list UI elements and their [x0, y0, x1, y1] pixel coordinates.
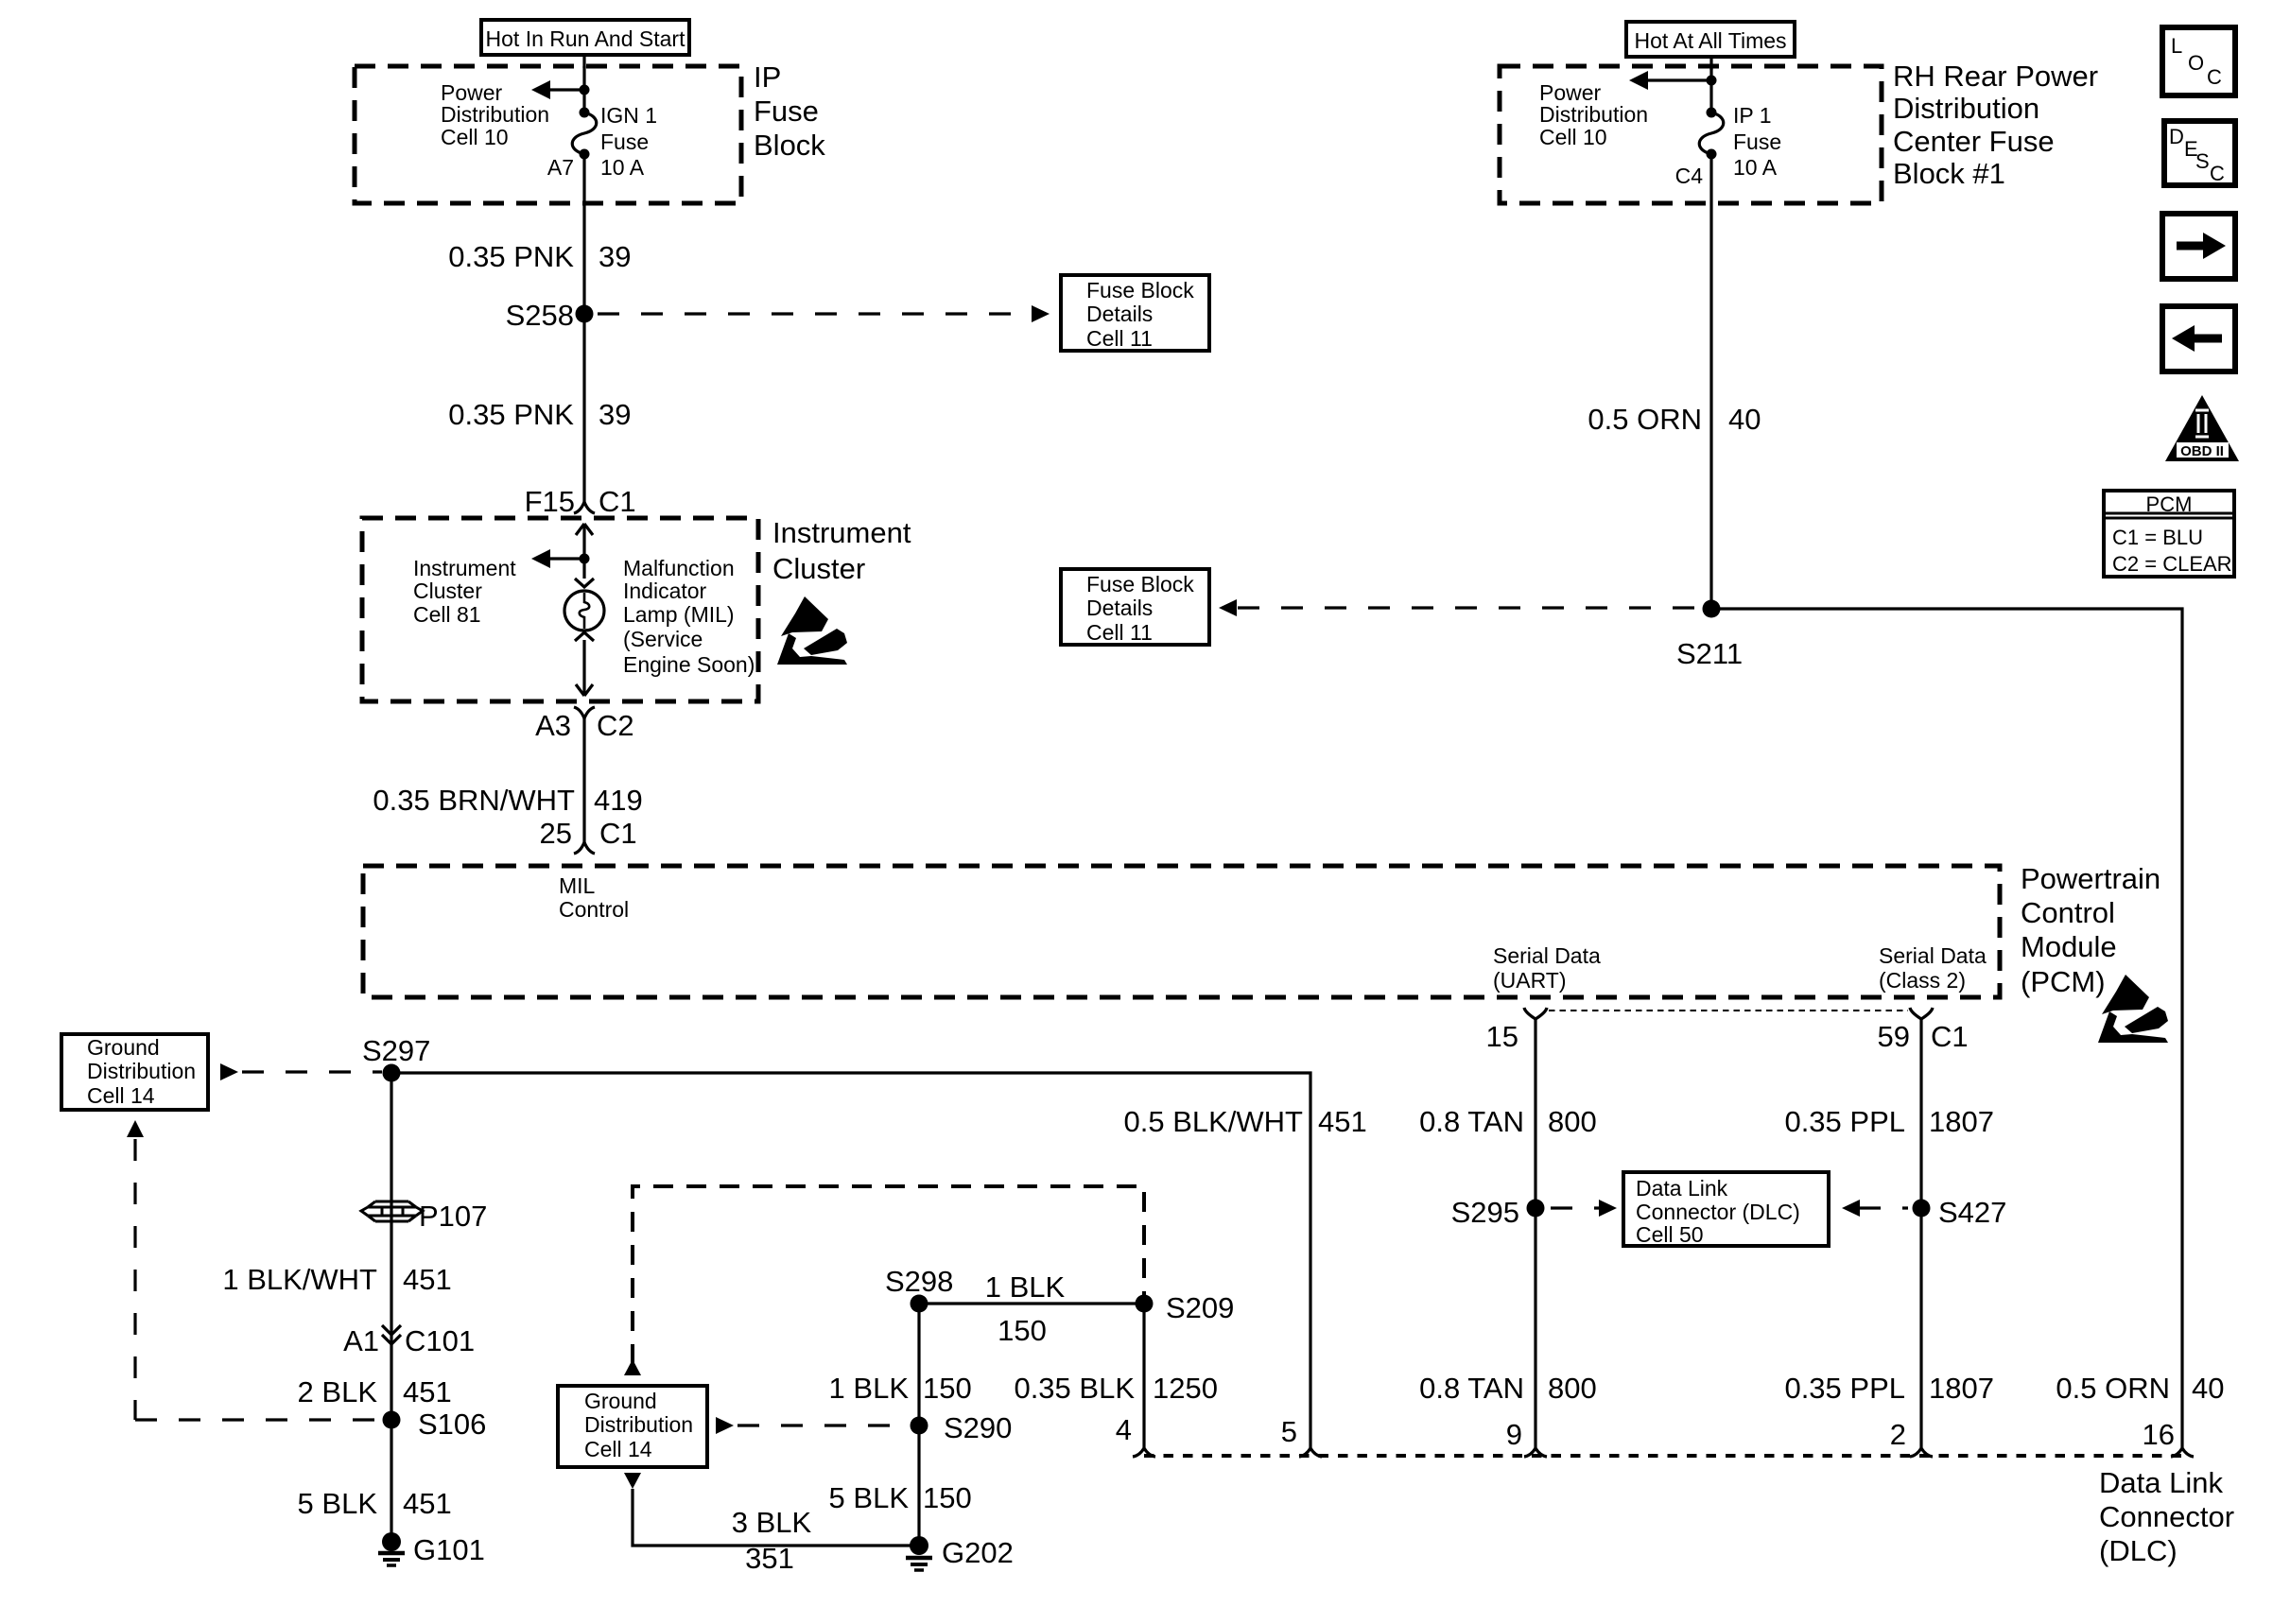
legend box back arrow — [2162, 306, 2235, 371]
svg-text:Distribution: Distribution — [584, 1412, 693, 1437]
svg-text:(PCM): (PCM) — [2021, 965, 2106, 998]
svg-text:A3: A3 — [535, 709, 571, 742]
svg-text:O: O — [2188, 51, 2204, 75]
svg-text:Cell 14: Cell 14 — [87, 1083, 155, 1108]
svg-text:Module: Module — [2021, 930, 2117, 963]
wire label 2 BLK 451 — [298, 1375, 452, 1408]
splice S211 — [1676, 600, 1743, 671]
PCM connector C1 outline (thin dashed) — [1549, 1010, 1908, 1011]
svg-text:S106: S106 — [418, 1408, 486, 1441]
wire label 0.35 PNK 39 (upper) — [448, 240, 631, 273]
wire label 1 BLK 150 (horizontal) — [985, 1270, 1066, 1347]
label Serial Data (Class 2) — [1879, 943, 1987, 993]
reference box Fuse Block Details Cell 11 (upper) — [1061, 275, 1209, 351]
svg-text:(Service: (Service — [623, 627, 703, 651]
svg-text:Cell 11: Cell 11 — [1086, 326, 1153, 351]
svg-text:Ground: Ground — [87, 1035, 160, 1060]
PCM pin 59 C1 (connector half) — [1878, 1008, 1969, 1053]
svg-text:C101: C101 — [405, 1324, 475, 1357]
reference box Fuse Block Details Cell 11 (lower) — [1061, 569, 1209, 645]
svg-text:1807: 1807 — [1929, 1105, 1994, 1138]
dashed arrow Ground Distribution to S290 — [716, 1417, 906, 1434]
section label IP Fuse Block — [754, 60, 825, 162]
svg-text:Details: Details — [1086, 302, 1153, 326]
svg-text:419: 419 — [594, 784, 643, 817]
svg-text:0.35 PPL: 0.35 PPL — [1784, 1372, 1905, 1405]
svg-text:Details: Details — [1086, 596, 1153, 620]
svg-text:25: 25 — [540, 817, 572, 850]
svg-text:(DLC): (DLC) — [2099, 1534, 2178, 1567]
section label Powertrain Control Module (PCM) — [2021, 862, 2160, 998]
svg-text:10 A: 10 A — [600, 155, 645, 180]
svg-text:S258: S258 — [506, 299, 574, 332]
wire label 5 BLK 451 — [298, 1487, 452, 1520]
svg-text:2: 2 — [1890, 1418, 1906, 1451]
wire feed inside IP fuse block — [582, 66, 585, 113]
wire from Hot At All Times to fuse block — [1709, 57, 1712, 70]
legend box DESC — [2164, 121, 2235, 185]
arrow to Instrument Cluster cell — [531, 549, 590, 568]
svg-text:Cell 11: Cell 11 — [1086, 620, 1153, 645]
svg-text:351: 351 — [745, 1542, 794, 1575]
svg-text:1807: 1807 — [1929, 1372, 1994, 1405]
splice S290 — [911, 1411, 1013, 1444]
connector A1 C101 — [343, 1324, 475, 1357]
svg-text:5: 5 — [1281, 1415, 1297, 1448]
wire label 0.35 BLK 1250 — [1014, 1372, 1218, 1405]
svg-text:A7: A7 — [547, 155, 574, 180]
dashed reference path to S106 with up arrow — [127, 1120, 378, 1420]
svg-text:Cell 50: Cell 50 — [1636, 1222, 1704, 1247]
wire label 3 BLK 351 — [732, 1506, 812, 1575]
svg-text:0.5 ORN: 0.5 ORN — [2056, 1372, 2170, 1405]
svg-text:1250: 1250 — [1153, 1372, 1218, 1405]
svg-text:Distribution: Distribution — [1893, 92, 2039, 125]
svg-text:RH Rear Power: RH Rear Power — [1893, 60, 2098, 93]
svg-text:3 BLK: 3 BLK — [732, 1506, 812, 1539]
svg-text:451: 451 — [403, 1487, 452, 1520]
svg-text:0.5 ORN: 0.5 ORN — [1588, 403, 1702, 436]
svg-text:0.8 TAN: 0.8 TAN — [1419, 1105, 1524, 1138]
label Serial Data (UART) — [1493, 943, 1601, 993]
svg-text:A1: A1 — [343, 1324, 379, 1357]
wire label 0.35 PPL 1807 (lower) — [1784, 1372, 1994, 1405]
PCM pin 15 (connector half) — [1486, 1008, 1547, 1053]
svg-text:Data Link: Data Link — [1636, 1176, 1728, 1201]
Instrument Cluster (dashed outline) — [362, 518, 758, 701]
ground G101 — [378, 1532, 485, 1566]
svg-text:Control: Control — [2021, 896, 2115, 929]
svg-text:MIL: MIL — [559, 873, 596, 898]
svg-text:0.8 TAN: 0.8 TAN — [1419, 1372, 1524, 1405]
wire label 0.35 BRN/WHT 419 — [373, 784, 642, 817]
reference box Ground Distribution Cell 14 (left) — [61, 1034, 208, 1110]
svg-text:P107: P107 — [419, 1200, 487, 1233]
label Instrument Cluster Cell 81 — [413, 556, 516, 627]
down arrow from Ground Distribution — [624, 1473, 641, 1489]
svg-text:S211: S211 — [1676, 637, 1743, 670]
svg-text:0.35 PPL: 0.35 PPL — [1784, 1105, 1905, 1138]
svg-text:S290: S290 — [944, 1411, 1012, 1444]
svg-text:OBD II: OBD II — [2180, 443, 2224, 459]
svg-text:1 BLK/WHT: 1 BLK/WHT — [222, 1263, 377, 1296]
DLC pin 5 — [1281, 1415, 1322, 1457]
svg-text:Instrument: Instrument — [413, 556, 516, 580]
reference box Ground Distribution Cell 14 (center) — [558, 1386, 707, 1467]
svg-text:Data Link: Data Link — [2099, 1466, 2223, 1499]
svg-text:5 BLK: 5 BLK — [829, 1481, 910, 1514]
wire PCM pin 15 to DLC pin 9 — [1534, 1019, 1536, 1448]
wire label 0.8 TAN 800 (upper) — [1419, 1105, 1597, 1138]
wire into instrument cluster with up arrow — [576, 524, 593, 579]
power label box Hot At All Times — [1626, 22, 1795, 57]
wire S297 to DLC pin 5 — [391, 1073, 1310, 1448]
svg-text:Cell 81: Cell 81 — [413, 602, 481, 627]
svg-text:Hot In Run And Start: Hot In Run And Start — [486, 26, 686, 51]
svg-text:16: 16 — [2143, 1418, 2175, 1451]
wire label 5 BLK 150 — [829, 1481, 972, 1514]
svg-text:C2 = CLEAR: C2 = CLEAR — [2112, 552, 2232, 576]
arrow to Power Distribution — [531, 80, 590, 99]
splice S106 — [383, 1408, 487, 1441]
ESD symbol (PCM) — [2098, 975, 2168, 1043]
connector 25 C1 (PCM input) — [540, 817, 637, 854]
svg-text:IGN 1: IGN 1 — [600, 103, 657, 128]
svg-text:C1: C1 — [599, 485, 636, 518]
svg-text:Control: Control — [559, 897, 629, 922]
wire from Hot In Run And Start to IP fuse block — [582, 55, 585, 68]
wire label 0.35 PPL 1807 (upper) — [1784, 1105, 1994, 1138]
svg-text:59: 59 — [1878, 1020, 1910, 1053]
svg-text:40: 40 — [2192, 1372, 2224, 1405]
svg-text:Fuse: Fuse — [1733, 130, 1781, 154]
svg-text:451: 451 — [1318, 1105, 1367, 1138]
wire PCM pin 59 to DLC pin 2 — [1919, 1019, 1922, 1448]
wire fuse to S258 to F15 — [582, 154, 585, 503]
svg-text:0.5 BLK/WHT: 0.5 BLK/WHT — [1124, 1105, 1304, 1138]
wire S211 to DLC pin 16 — [1711, 609, 2182, 1448]
svg-text:451: 451 — [403, 1375, 452, 1408]
DLC connector outline (dashed) — [1144, 1454, 2182, 1458]
svg-text:C1: C1 — [599, 817, 637, 850]
svg-text:Cell 10: Cell 10 — [1539, 125, 1607, 149]
svg-text:Connector (DLC): Connector (DLC) — [1636, 1200, 1800, 1224]
dashed arrow Ground Distribution to S297 — [220, 1063, 382, 1080]
dashed harness outline (ground net) — [633, 1186, 1144, 1364]
svg-text:Serial Data: Serial Data — [1879, 943, 1987, 968]
svg-text:0.35 BRN/WHT: 0.35 BRN/WHT — [373, 784, 575, 817]
label Power Distribution Cell 10 (IP) — [441, 80, 549, 149]
svg-text:Block #1: Block #1 — [1893, 157, 2005, 190]
svg-text:10 A: 10 A — [1733, 155, 1778, 180]
svg-text:Serial Data: Serial Data — [1493, 943, 1601, 968]
legend box LOC — [2162, 27, 2235, 95]
fuse IGN 1 10A — [572, 108, 597, 160]
svg-text:1 BLK: 1 BLK — [829, 1372, 910, 1405]
label MIL Control — [559, 873, 629, 922]
splice S298 — [885, 1265, 953, 1313]
ground G202 — [906, 1536, 1014, 1570]
svg-text:9: 9 — [1506, 1418, 1522, 1451]
wire label 0.5 BLK/WHT 451 — [1124, 1105, 1367, 1138]
power label box Hot In Run And Start — [481, 20, 689, 55]
svg-text:150: 150 — [923, 1481, 972, 1514]
splice S258 — [506, 299, 594, 332]
svg-text:Cell 10: Cell 10 — [441, 125, 509, 149]
section label Instrument Cluster — [772, 516, 911, 585]
ESD symbol (instrument cluster) — [777, 596, 847, 665]
dashed arrow S295 to DLC reference — [1551, 1200, 1617, 1217]
RH Rear Power Distribution Center fuse block (dashed outline) — [1500, 66, 1882, 203]
IP fuse block (dashed outline) — [355, 66, 741, 203]
svg-text:Fuse: Fuse — [754, 95, 819, 128]
svg-text:S297: S297 — [362, 1034, 430, 1067]
wire ground box to G202 (3 BLK 351) — [633, 1489, 919, 1546]
svg-text:IP 1: IP 1 — [1733, 103, 1772, 128]
label Power Distribution Cell 10 (RH) — [1539, 80, 1648, 149]
splice S209 — [1136, 1291, 1235, 1324]
svg-text:0.35 PNK: 0.35 PNK — [448, 398, 574, 431]
svg-text:Lamp (MIL): Lamp (MIL) — [623, 602, 735, 627]
splice S297 — [362, 1034, 430, 1082]
svg-text:Fuse Block: Fuse Block — [1086, 278, 1194, 302]
svg-text:(Class 2): (Class 2) — [1879, 968, 1966, 993]
Powertrain Control Module (dashed outline) — [363, 866, 2000, 997]
svg-text:S295: S295 — [1451, 1196, 1519, 1229]
svg-text:S298: S298 — [885, 1265, 953, 1298]
legend box forward arrow — [2162, 214, 2235, 279]
svg-text:Cluster: Cluster — [413, 579, 482, 603]
svg-text:5 BLK: 5 BLK — [298, 1487, 378, 1520]
svg-text:Cell 14: Cell 14 — [584, 1437, 652, 1461]
svg-text:D: D — [2169, 125, 2184, 148]
svg-text:Ground: Ground — [584, 1389, 657, 1413]
svg-text:Powertrain: Powertrain — [2021, 862, 2160, 895]
DLC pin 4 — [1116, 1413, 1155, 1457]
svg-text:800: 800 — [1548, 1372, 1597, 1405]
svg-text:Cluster: Cluster — [772, 552, 865, 585]
svg-text:Indicator: Indicator — [623, 579, 707, 603]
svg-text:C: C — [2207, 65, 2222, 89]
svg-text:Distribution: Distribution — [87, 1059, 196, 1083]
svg-text:C4: C4 — [1675, 164, 1704, 188]
svg-text:0.35 BLK: 0.35 BLK — [1014, 1372, 1135, 1405]
svg-text:Center Fuse: Center Fuse — [1893, 125, 2055, 158]
svg-text:0.35 PNK: 0.35 PNK — [448, 240, 574, 273]
svg-text:451: 451 — [403, 1263, 452, 1296]
lamp MIL (indicator bulb) — [564, 579, 604, 641]
connector F15 C1 — [525, 485, 636, 518]
connector A3 C2 — [535, 707, 634, 742]
svg-text:Malfunction: Malfunction — [623, 556, 735, 580]
wire label 0.5 ORN 40 (lower) — [2056, 1372, 2224, 1405]
wire label 0.8 TAN 800 (lower) — [1419, 1372, 1597, 1405]
svg-text:800: 800 — [1548, 1105, 1597, 1138]
svg-text:Engine Soon): Engine Soon) — [623, 652, 755, 677]
DLC pin 16 — [2143, 1418, 2194, 1457]
svg-text:(UART): (UART) — [1493, 968, 1567, 993]
wire S298 to S290 — [917, 1304, 920, 1546]
svg-text:C2: C2 — [597, 709, 634, 742]
svg-text:39: 39 — [599, 240, 631, 273]
wire label 0.5 ORN 40 (upper) — [1588, 403, 1761, 436]
dashed arrow S427 to DLC reference — [1842, 1200, 1908, 1217]
svg-text:Distribution: Distribution — [441, 102, 549, 127]
svg-text:Hot At All Times: Hot At All Times — [1634, 28, 1786, 53]
section label Data Link Connector (DLC) — [2099, 1466, 2234, 1567]
svg-text:40: 40 — [1728, 403, 1761, 436]
DLC pin 9 — [1506, 1418, 1547, 1457]
svg-text:150: 150 — [998, 1314, 1047, 1347]
svg-text:F15: F15 — [525, 485, 575, 518]
dashed reference line S211 to Fuse Block Details — [1219, 599, 1700, 616]
arrow to Power Distribution (RH) — [1629, 71, 1717, 90]
svg-text:S427: S427 — [1938, 1196, 2006, 1229]
svg-text:39: 39 — [599, 398, 631, 431]
svg-text:Instrument: Instrument — [772, 516, 911, 549]
dashed reference line S258 to Fuse Block Details — [598, 305, 1050, 322]
svg-text:C: C — [2210, 162, 2225, 185]
wire label 1 BLK 150 (S298-S290) — [829, 1372, 972, 1405]
wire S209 to DLC pin 4 — [1142, 1304, 1145, 1448]
svg-text:150: 150 — [923, 1372, 972, 1405]
legend table PCM connectors — [2104, 491, 2234, 577]
svg-text:C1: C1 — [1931, 1020, 1969, 1053]
svg-text:Distribution: Distribution — [1539, 102, 1648, 127]
svg-text:L: L — [2171, 34, 2182, 58]
svg-text:G202: G202 — [942, 1536, 1014, 1569]
svg-text:S: S — [2195, 149, 2210, 173]
wire S297 down to G101 — [390, 1073, 392, 1534]
wire S298 to S209 — [919, 1302, 1144, 1304]
splice S427 — [1913, 1196, 2007, 1229]
wire label 0.35 PNK 39 (lower) — [448, 398, 631, 431]
wire from lamp to cluster output with down arrow — [576, 640, 593, 696]
svg-text:2 BLK: 2 BLK — [298, 1375, 378, 1408]
svg-text:1 BLK: 1 BLK — [985, 1270, 1066, 1304]
OBD II symbol — [2165, 395, 2239, 461]
svg-text:IP: IP — [754, 60, 781, 94]
wire fuse C4 to S211 — [1709, 154, 1712, 609]
DLC pin 2 — [1890, 1418, 1933, 1457]
svg-text:Fuse Block: Fuse Block — [1086, 572, 1194, 596]
splice S295 — [1451, 1196, 1545, 1229]
svg-text:PCM: PCM — [2146, 492, 2193, 516]
up arrow into dashed outline — [624, 1359, 641, 1375]
svg-text:G101: G101 — [413, 1533, 485, 1566]
reference box Data Link Connector (DLC) Cell 50 — [1623, 1172, 1829, 1247]
grommet P107 — [361, 1200, 487, 1233]
wire feed inside RH fuse block — [1709, 66, 1712, 113]
label Malfunction Indicator Lamp (MIL) (Service Engine Soon) — [623, 556, 755, 677]
label IP 1 Fuse 10 A — [1733, 103, 1781, 180]
svg-text:C1 = BLU: C1 = BLU — [2112, 526, 2203, 549]
svg-text:15: 15 — [1486, 1020, 1518, 1053]
label IGN 1 Fuse 10 A — [600, 103, 657, 180]
fuse IP 1 10A — [1699, 108, 1724, 160]
wire A3 to PCM — [582, 718, 585, 842]
svg-text:4: 4 — [1116, 1413, 1132, 1446]
svg-text:Connector: Connector — [2099, 1500, 2234, 1533]
svg-text:Block: Block — [754, 129, 825, 162]
svg-text:S209: S209 — [1166, 1291, 1234, 1324]
svg-text:Fuse: Fuse — [600, 130, 649, 154]
wire label 1 BLK/WHT 451 — [222, 1263, 451, 1296]
section label RH Rear Power Distribution Center Fuse Block #1 — [1893, 60, 2098, 190]
